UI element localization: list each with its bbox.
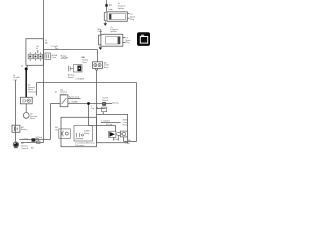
svg-text:Blk: Blk [45,42,48,44]
svg-text:Org: Org [91,108,94,110]
svg-text:Battery: Battery [112,101,118,104]
svg-text:Relay: Relay [84,133,89,135]
svg-text:C Org/Blk: C Org/Blk [69,102,78,104]
svg-text:To Key: To Key [62,57,68,59]
svg-text:2 Harness: 2 Harness [75,145,84,147]
svg-text:Assy: Assy [104,66,108,69]
svg-text:C Org/Grn: C Org/Grn [101,121,110,123]
svg-text:C Red/Blk: C Red/Blk [75,78,84,80]
svg-text:Blk: Blk [31,148,34,150]
svg-text:Solenoid: Solenoid [28,92,36,94]
svg-text:Ground: Ground [21,148,28,150]
svg-text:30 Red: 30 Red [36,137,42,139]
svg-text:1 Connector/Electrical: 1 Connector/Electrical [75,142,95,145]
svg-text:Switch: Switch [60,93,66,96]
svg-text:Switch: Switch [102,99,108,102]
svg-text:Plug: Plug [125,42,129,44]
svg-text:30 Org: 30 Org [106,124,112,126]
svg-text:Spare (Cut): Spare (Cut) [69,95,80,98]
svg-text:Plug: Plug [130,19,134,21]
svg-text:Motor: Motor [30,117,35,120]
svg-text:Link: Link [13,80,17,82]
svg-text:Start: Start [82,61,87,64]
svg-text:C Red: C Red [22,138,28,140]
svg-text:C Blk: C Blk [125,143,130,145]
svg-text:Grn: Grn [55,48,58,50]
svg-text:Ignition: Ignition [110,30,116,33]
svg-text:Battery: Battery [21,128,27,131]
svg-text:Ignition: Ignition [118,7,124,10]
svg-text:30 Blk: 30 Blk [113,139,119,141]
svg-text:Switch: Switch [68,76,74,79]
svg-text:Relay: Relay [123,124,128,126]
svg-text:Blk: Blk [128,140,131,142]
